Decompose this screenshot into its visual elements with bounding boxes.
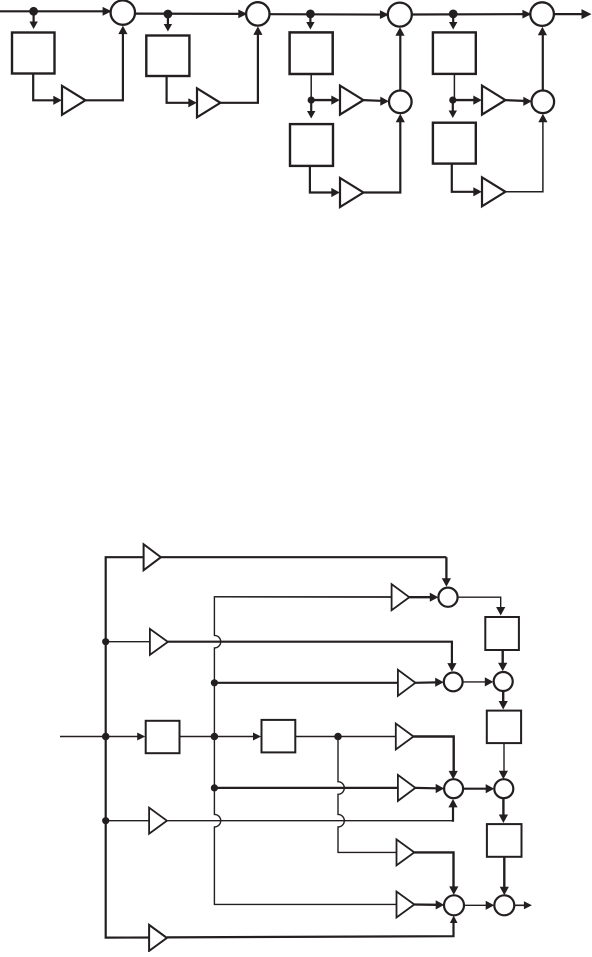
node n3b xyxy=(308,97,315,104)
delay block D2 xyxy=(146,36,189,77)
wire delay M2 to bus V3 xyxy=(295,736,338,738)
gain g1 on row A xyxy=(144,544,161,570)
arrowhead into summer S2 left xyxy=(435,678,444,687)
arrowhead into gain c4 xyxy=(473,187,482,196)
node n4b xyxy=(449,97,456,104)
arrowhead into gain b3 xyxy=(331,96,340,105)
gain g2 xyxy=(392,584,410,610)
wire delay D2 to gain b2 xyxy=(167,76,189,103)
wire delay D4a to node n4b xyxy=(453,74,455,99)
arrowhead into summer S6 left xyxy=(436,900,445,909)
gain b4 xyxy=(482,86,505,115)
summer A3 xyxy=(388,3,412,27)
delay block D3b xyxy=(290,124,333,166)
arrowhead into summer A1 xyxy=(103,7,112,16)
wire gain g7 toward summer S4 xyxy=(167,820,453,822)
wire row y788 bus V2 to gain g6 xyxy=(214,787,397,789)
arrowhead into summer S7 top xyxy=(500,887,509,896)
output arrowhead xyxy=(524,901,532,909)
wire delay M1 to bus V2 xyxy=(180,736,215,738)
gain c4 xyxy=(482,177,505,206)
wire delay D4b to gain c4 xyxy=(452,164,474,192)
wire gain g9 to summer S6 xyxy=(414,903,436,906)
node on bus V3 row E xyxy=(334,733,342,741)
wire input xyxy=(60,736,102,738)
wire output of summer S7 xyxy=(514,904,524,906)
wire row F up to summer S4 bottom xyxy=(452,807,454,822)
summer B4 xyxy=(532,91,555,114)
gain g6 xyxy=(398,775,416,801)
arrowhead into summer S4 bottom xyxy=(448,799,457,808)
wire row C bus V1 to gain g3 xyxy=(106,641,150,643)
delay block M1 xyxy=(146,721,180,753)
wire summer A3 to summer A4 xyxy=(412,13,532,16)
arrowhead into summer S1 left xyxy=(430,593,439,602)
wire delay D1 to gain b1 xyxy=(33,74,54,101)
summer S3 xyxy=(494,672,513,691)
wire gain g4 to summer S2 xyxy=(415,681,436,684)
summer S2 xyxy=(444,673,463,692)
wire main input to summer A1 xyxy=(0,10,112,12)
wire summer S4 to summer S5r xyxy=(463,788,486,790)
wire gain g6 to summer S4 xyxy=(415,787,436,790)
arrowhead into summer A2 bottom xyxy=(253,26,262,35)
wire gain b1 to summer A1 xyxy=(85,33,123,100)
node n3 on main line xyxy=(306,10,315,19)
wire summer S2 to summer S3 xyxy=(463,681,486,683)
node n2 on main line xyxy=(164,10,173,19)
node n4 on main line xyxy=(449,10,458,19)
arrowhead into gain c3 xyxy=(331,188,340,197)
summer S7 xyxy=(494,895,514,915)
arrowhead into summer S6 bottom xyxy=(450,916,458,924)
wire node n1 down xyxy=(32,11,34,21)
wire row A down to summer S1 xyxy=(445,557,447,579)
delay block M2 xyxy=(262,720,296,753)
wire summer S3 to delay Z2 xyxy=(502,691,504,704)
wire gain b4 to summer B4 xyxy=(505,99,523,102)
wire gain b2 to summer A2 xyxy=(220,34,258,103)
wire gain c3 to summer B3 xyxy=(363,120,400,193)
wire node n3b to gain b3 xyxy=(311,99,332,101)
arrowhead into delay M1 xyxy=(137,733,145,741)
wire node to delay M1 xyxy=(106,736,138,738)
wire gain g8 down to summer S6 xyxy=(414,852,453,888)
wire gain c4 to summer B4 xyxy=(505,120,543,192)
wire gain g2 to summer S1 xyxy=(409,596,430,598)
wire summer B3 to summer A3 xyxy=(399,34,401,91)
wire bus V3 with hops over rows at y788 and y821 xyxy=(338,737,396,853)
arrowhead into delay D3a xyxy=(306,22,314,30)
gain g7 xyxy=(149,808,167,834)
arrowhead into summer S6 top xyxy=(449,886,458,895)
delay block Z2 xyxy=(487,711,521,744)
wire node n4 down xyxy=(452,14,454,22)
arrowhead into summer S5r left xyxy=(486,784,495,793)
wire summer S5r to delay Z3 xyxy=(502,798,504,817)
gain g4 xyxy=(398,670,416,696)
arrowhead into summer S3 left xyxy=(485,677,494,686)
summer S6 xyxy=(444,895,464,915)
gain c3 xyxy=(340,178,363,207)
arrowhead into gain b1 xyxy=(53,96,62,105)
wire summer A2 to summer A3 xyxy=(270,13,389,16)
arrowhead into summer S4 top xyxy=(449,771,458,780)
arrowhead into summer S3 top xyxy=(498,663,507,672)
arrowhead into summer A3 xyxy=(380,10,389,19)
arrowhead into gain b4 xyxy=(473,96,482,105)
arrowhead into summer A3 bottom xyxy=(395,27,404,36)
wire node n3b down xyxy=(310,103,312,111)
summer B3 xyxy=(389,91,412,114)
node input on bus V1 xyxy=(102,733,110,741)
arrowhead into summer B4 xyxy=(523,97,532,106)
gain b1 xyxy=(62,86,85,115)
wire node to gain g5 xyxy=(338,736,396,738)
delay block D3a xyxy=(290,32,333,74)
wire gain g10 to summer S6 bottom xyxy=(167,922,454,938)
wire summer S6 to summer S7 xyxy=(464,904,487,906)
arrowhead into summer S1 top xyxy=(442,578,451,587)
wire delay Z3 to summer S7 xyxy=(503,857,505,888)
arrowhead into summer A4 xyxy=(522,10,531,19)
wire node n4b to gain b4 xyxy=(453,99,474,101)
wire row B bus V2 to gain g2 xyxy=(214,596,391,598)
wire bus V2 with hops over rows C and F xyxy=(214,597,396,905)
gain g5 xyxy=(396,724,414,750)
node on bus V1 row C xyxy=(102,638,109,645)
wire node n3 down xyxy=(309,14,311,22)
arrowhead into summer B3 bottom xyxy=(396,114,405,123)
summer S5r xyxy=(494,779,513,798)
wire row F bus V1 to gain g7 xyxy=(106,820,149,822)
arrowhead into summer B4 bottom xyxy=(538,114,547,123)
node on bus V2 row D xyxy=(211,679,218,686)
arrowhead into delay Z2 xyxy=(499,701,508,710)
wire gain g5 down to summer S4 xyxy=(414,737,454,773)
arrowhead into summer S4 left xyxy=(436,784,445,793)
arrowhead into delay D3b xyxy=(307,111,315,119)
gain g3 xyxy=(150,629,168,655)
output arrowhead xyxy=(582,9,592,19)
arrowhead into delay D4a xyxy=(449,22,457,30)
gain b2 xyxy=(197,88,220,117)
arrowhead into summer A2 xyxy=(238,10,247,19)
arrowhead into delay M2 xyxy=(253,733,261,741)
wire delay Z1 to summer S3 xyxy=(502,650,504,664)
gain g8 xyxy=(397,839,415,865)
wire summer A4 to output xyxy=(554,13,583,15)
delay block D4b xyxy=(433,123,476,164)
gain b3 xyxy=(340,86,363,115)
delay block D1 xyxy=(12,33,55,74)
arrowhead into delay Z3 xyxy=(499,815,508,824)
node on bus V2 row y788 xyxy=(211,784,218,791)
wire row D bus V2 to gain g4 xyxy=(214,682,397,684)
node n1 on main line xyxy=(29,7,38,16)
delay block Z3 xyxy=(487,824,522,857)
summer A1 xyxy=(111,0,135,24)
arrowhead into summer A4 bottom xyxy=(538,27,547,36)
delay block Z1 xyxy=(485,617,519,650)
arrowhead into summer S2 top xyxy=(447,663,456,672)
wire delay Z2 to summer S5r xyxy=(503,743,505,771)
delay block D4a xyxy=(433,32,476,74)
summer A4 xyxy=(530,2,554,26)
summer A2 xyxy=(246,2,269,25)
gain g9 xyxy=(397,892,415,918)
node on bus V2 row E xyxy=(211,733,219,741)
wire summer A1 to summer A2 xyxy=(135,13,247,15)
wire node n4b down xyxy=(452,103,454,111)
gain g10 xyxy=(149,925,167,951)
arrowhead into summer S7 left xyxy=(486,901,495,910)
arrowhead into summer A1 bottom xyxy=(118,26,127,34)
arrowhead into delay D2 xyxy=(164,24,172,32)
wire delay D3a to node n3b xyxy=(310,74,312,99)
wire node to delay M2 xyxy=(214,736,253,738)
arrowhead into gain b2 xyxy=(188,98,197,107)
arrowhead into delay D1 xyxy=(29,22,37,30)
arrowhead into summer S5r top xyxy=(499,771,508,780)
wire gain b3 to summer B3 xyxy=(363,99,380,102)
arrowhead into delay D4b xyxy=(449,111,457,119)
arrowhead into delay Z1 xyxy=(496,607,505,616)
wire summer S1 to delay Z1 xyxy=(458,597,501,608)
wire bus V1 with row A top and row H bottom xyxy=(106,557,447,937)
node on bus V1 row F xyxy=(102,817,109,824)
summer S1 xyxy=(438,588,457,607)
summer S4 xyxy=(444,779,463,798)
wire summer B4 to summer A4 xyxy=(542,34,544,91)
wire delay D3b to gain c3 xyxy=(310,166,332,193)
wire gain g3 to summer S2 xyxy=(168,642,452,664)
wire node n2 down xyxy=(167,14,169,24)
arrowhead into summer B3 xyxy=(380,97,389,106)
